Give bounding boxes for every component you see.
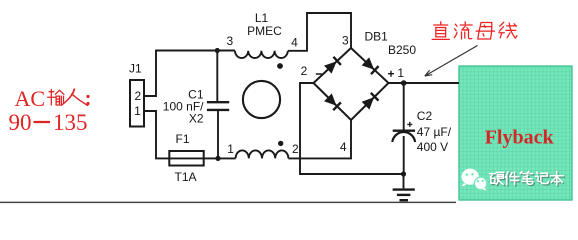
svg-text:400 V: 400 V — [417, 140, 448, 154]
pin number 3 of L1 — [226, 34, 233, 48]
bridge DB1 diamond edges — [314, 48, 389, 120]
watermark wechat icon small bubble — [474, 177, 487, 190]
wire DC bus from bridge +1 to Flyback block — [389, 82, 460, 84]
node dot ground rail — [401, 171, 406, 176]
hanzi liu — [454, 22, 472, 39]
phase dot top winding — [277, 63, 283, 69]
value T1A — [174, 170, 196, 184]
value B250 — [388, 43, 416, 57]
watermark hanzi ying shadow+white — [491, 174, 505, 186]
pin number 4 of bridge — [340, 140, 347, 154]
capacitor C1 plates — [207, 102, 229, 110]
label J1 — [129, 62, 142, 76]
svg-text:AC: AC — [15, 86, 46, 111]
bridge diode top-right — [362, 57, 379, 74]
hanzi mu — [476, 23, 494, 39]
ground symbol — [393, 174, 415, 200]
pin number 2 of J1 — [134, 89, 141, 103]
label F1 — [175, 132, 189, 146]
svg-text:47 µF/: 47 µF/ — [417, 125, 452, 139]
watermark hanzi jian — [506, 173, 520, 186]
capacitor C2 top plate — [393, 129, 415, 131]
red dash — [34, 121, 51, 123]
toroid core circle of L1 — [243, 81, 280, 118]
red colon — [86, 95, 89, 105]
bottom divider line — [0, 201, 456, 203]
pin number 2 of L1 — [292, 142, 299, 156]
svg-text:X2: X2 — [189, 112, 204, 126]
pin number 3 of bridge — [342, 34, 349, 48]
red text AC input line1 — [15, 86, 46, 111]
svg-text:PMEC: PMEC — [247, 24, 282, 38]
minus mark of bridge — [316, 73, 322, 75]
pin number 1 of J1 — [134, 104, 141, 118]
capacitor C2 curved plate — [392, 132, 415, 142]
red text DC bus label: hanzi zhi — [432, 22, 449, 40]
inductor L1 bottom winding (pins 1-2) — [236, 150, 289, 158]
red text 135 — [53, 110, 88, 135]
svg-text:C2: C2 — [417, 109, 433, 123]
hanzi shu (input) — [48, 89, 64, 105]
pin number 1 of L1 — [227, 142, 234, 156]
watermark hanzi bi — [521, 173, 534, 186]
svg-text:L1: L1 — [255, 11, 269, 25]
svg-text:Flyback: Flyback — [485, 127, 555, 149]
wire J1 pin2 to top rail — [144, 51, 235, 97]
hanzi ru (input) — [61, 89, 87, 105]
svg-text:2: 2 — [134, 89, 141, 103]
svg-text:1: 1 — [397, 66, 404, 80]
svg-text:3: 3 — [226, 34, 233, 48]
label C1 — [188, 88, 204, 102]
hanzi xian — [499, 22, 517, 38]
pin number 4 of L1 — [291, 36, 298, 50]
value 47 uF/ — [417, 125, 452, 139]
label DB1 — [365, 30, 389, 44]
watermark wechat icon big bubble — [462, 169, 479, 187]
wire L1 pin2 to bridge bottom terminal 4 — [288, 120, 351, 158]
connector J1 body — [130, 80, 144, 127]
svg-text:1: 1 — [134, 104, 141, 118]
node dot on fuse rail — [215, 156, 220, 161]
wire bridge minus terminal to ground rail — [300, 83, 404, 174]
node dot DC bus — [401, 80, 407, 86]
phase dot bottom winding — [278, 141, 283, 146]
value PMEC — [247, 24, 282, 38]
bridge diode bottom-left — [324, 93, 341, 110]
bridge diode bottom-right — [362, 93, 379, 110]
value X2 — [189, 112, 204, 126]
pin number 2 of bridge — [301, 64, 308, 78]
svg-text:3: 3 — [342, 34, 349, 48]
svg-text:1: 1 — [227, 142, 234, 156]
node dot 3 on top rail — [215, 48, 220, 53]
green Flyback block — [459, 66, 572, 200]
inductor L1 top winding (pins 3-4) — [235, 51, 288, 58]
value 400 V — [417, 140, 448, 154]
watermark hanzi ji — [537, 173, 550, 184]
capacitor C1 branch wires — [216, 51, 219, 159]
svg-text:2: 2 — [301, 64, 308, 78]
capacitor C2 branch wires — [403, 83, 405, 174]
svg-text:90: 90 — [9, 110, 32, 135]
bridge diode top-left — [324, 57, 341, 74]
plus mark of bridge — [388, 71, 394, 77]
watermark hanzi ben — [551, 173, 564, 187]
fuse F1 body — [169, 151, 203, 166]
svg-text:4: 4 — [291, 36, 298, 50]
svg-text:J1: J1 — [129, 62, 142, 76]
svg-text:B250: B250 — [388, 43, 416, 57]
svg-text:2: 2 — [292, 142, 299, 156]
svg-text:T1A: T1A — [174, 170, 196, 184]
wire J1 pin1 down to fuse rail — [144, 111, 236, 158]
svg-text:4: 4 — [340, 140, 347, 154]
label C2 — [417, 109, 433, 123]
wire L1 pin4 to bridge terminal 3 — [288, 13, 351, 51]
svg-text:F1: F1 — [175, 132, 189, 146]
svg-text:DB1: DB1 — [365, 30, 389, 44]
svg-text:135: 135 — [53, 110, 88, 135]
red annotation arrow to DC bus — [425, 46, 478, 77]
pin number 1 of bridge — [397, 66, 404, 80]
red text 90 — [9, 110, 32, 135]
plus sign C2 polarity — [407, 122, 412, 127]
red text Flyback — [485, 127, 555, 149]
value 100 nF/ — [163, 100, 204, 114]
label L1 — [255, 11, 269, 25]
